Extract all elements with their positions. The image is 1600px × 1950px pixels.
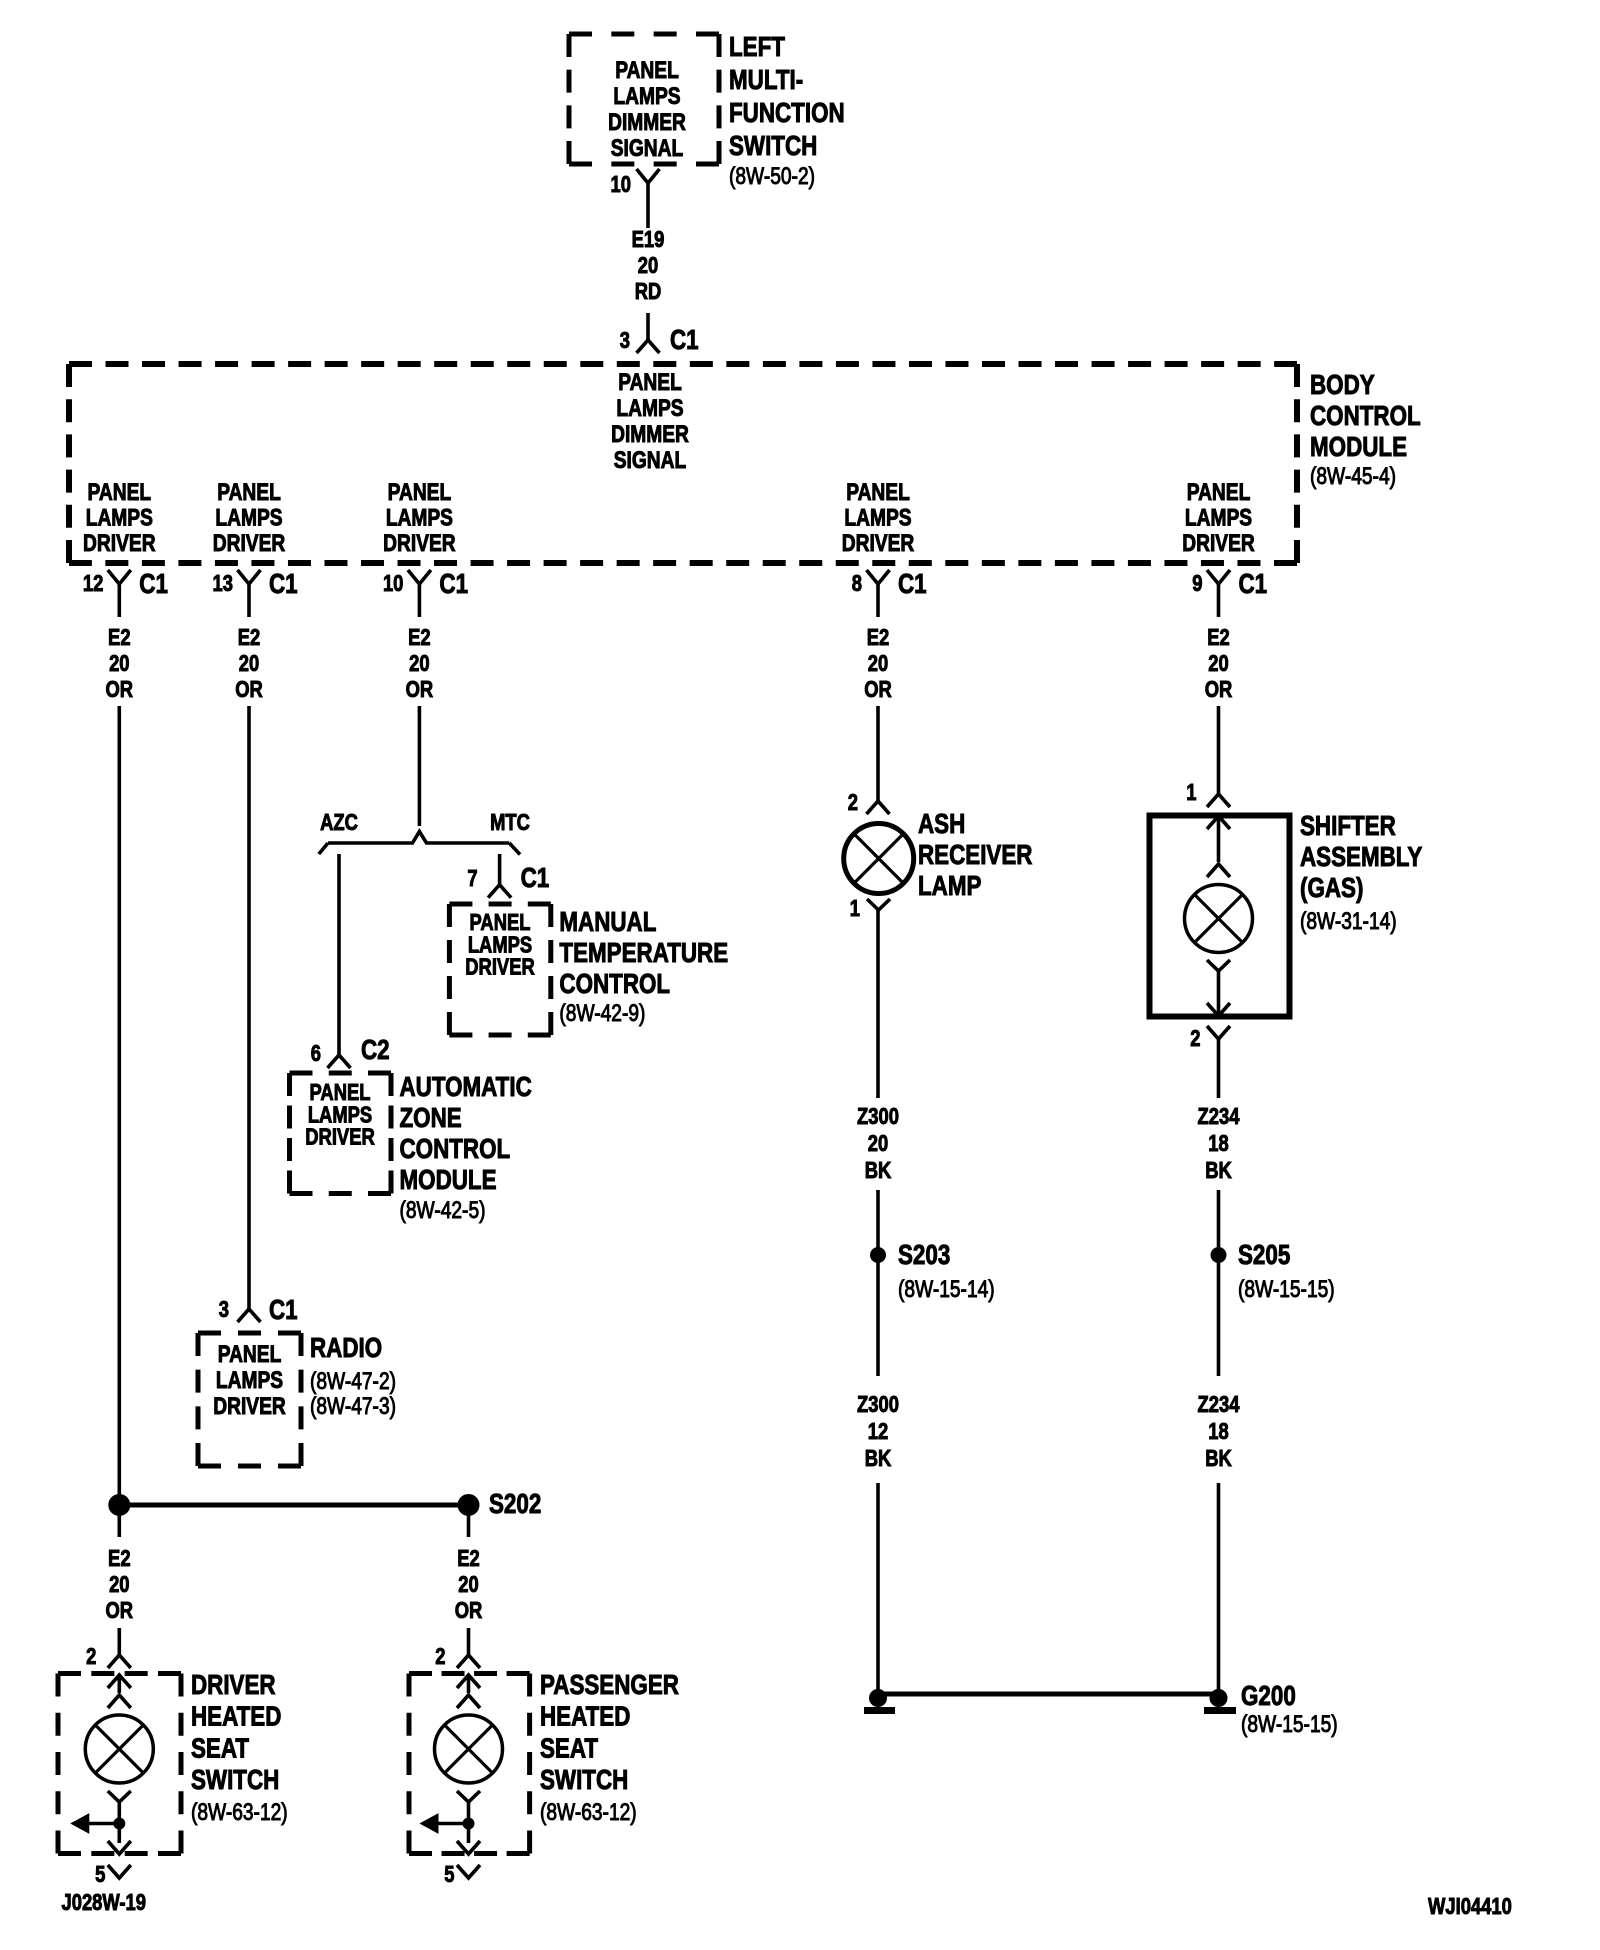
connector pin 1 (shifter assembly) [1207, 794, 1230, 807]
splice S202 bus wire [119, 1503, 468, 1508]
svg-text:SIGNAL: SIGNAL [611, 134, 683, 162]
svg-text:(8W-45-4): (8W-45-4) [1310, 462, 1396, 490]
svg-text:ZONE: ZONE [400, 1103, 462, 1134]
svg-text:AZC: AZC [320, 810, 358, 835]
svg-text:12: 12 [868, 1419, 888, 1444]
svg-text:SWITCH: SWITCH [191, 1765, 279, 1796]
connector C1 pin 13 (BCM panel lamps driver) [238, 570, 261, 584]
svg-text:(8W-15-15): (8W-15-15) [1238, 1275, 1335, 1303]
svg-text:CONTROL: CONTROL [559, 969, 670, 1000]
svg-text:(GAS): (GAS) [1300, 873, 1363, 904]
connector C1 pin 3 (radio) [238, 1309, 261, 1322]
connector pin 2 (passenger heated seat switch) [457, 1655, 480, 1668]
svg-text:DRIVER: DRIVER [842, 529, 915, 557]
connector C1 pin 12 (BCM panel lamps driver) [108, 570, 131, 584]
connector pin 2 (ash receiver lamp) [867, 801, 890, 814]
svg-text:BK: BK [865, 1158, 892, 1183]
svg-text:E2: E2 [108, 1546, 131, 1571]
splice S205 [1211, 1248, 1226, 1263]
svg-text:2: 2 [435, 1644, 445, 1669]
lamp: passenger heated seat switch illumination [435, 1715, 503, 1783]
svg-text:LAMPS: LAMPS [1185, 503, 1252, 531]
svg-text:20: 20 [868, 1131, 888, 1156]
svg-text:20: 20 [1208, 651, 1228, 676]
svg-text:OR: OR [1205, 677, 1233, 702]
left multi-function switch box [569, 32, 719, 37]
svg-text:TEMPERATURE: TEMPERATURE [559, 938, 728, 969]
svg-text:3: 3 [219, 1297, 229, 1322]
svg-text:LAMP: LAMP [918, 871, 982, 902]
svg-text:PANEL: PANEL [217, 478, 281, 506]
svg-text:Z300: Z300 [857, 1392, 899, 1417]
wire E2 (pin 12 to splice S202) [118, 706, 122, 1505]
connector pin 2 (driver heated seat switch) [108, 1655, 131, 1668]
svg-text:AUTOMATIC: AUTOMATIC [400, 1072, 532, 1103]
svg-text:PANEL: PANEL [388, 478, 452, 506]
svg-text:PANEL: PANEL [87, 478, 151, 506]
wire E2 (pin 9 to shifter assembly) [1217, 706, 1221, 794]
svg-text:MANUAL: MANUAL [559, 907, 656, 938]
svg-text:PANEL: PANEL [1187, 478, 1251, 506]
svg-text:20: 20 [868, 651, 888, 676]
ground bus wire (S203 branch to G200) [878, 1692, 1219, 1697]
svg-text:BK: BK [1205, 1446, 1232, 1471]
svg-text:LAMPS: LAMPS [616, 394, 683, 422]
connector C1 pin 3 (BCM) [637, 340, 660, 353]
wire E2 (pin 13 to radio) [247, 706, 251, 1309]
svg-text:(8W-15-14): (8W-15-14) [898, 1275, 995, 1303]
wire to pin 5 [118, 1824, 122, 1844]
wire into connector C1 pin 3 [646, 313, 650, 340]
svg-text:SEAT: SEAT [540, 1733, 599, 1764]
svg-text:BODY: BODY [1310, 370, 1375, 401]
svg-text:MODULE: MODULE [400, 1165, 497, 1196]
svg-text:S202: S202 [489, 1489, 541, 1520]
svg-text:C1: C1 [139, 569, 168, 600]
svg-text:OR: OR [406, 677, 434, 702]
connector C1 pin 7 (manual temperature control) [488, 885, 511, 898]
svg-text:LAMPS: LAMPS [386, 503, 453, 531]
svg-text:5: 5 [95, 1862, 105, 1887]
svg-text:DIMMER: DIMMER [611, 420, 689, 448]
internal connector (lamp bottom) [108, 1791, 131, 1802]
svg-text:E2: E2 [867, 625, 890, 650]
option split brace (AZC / MTC) [328, 832, 509, 844]
connector C1 pin 10 (BCM panel lamps driver) [408, 570, 431, 584]
svg-text:18: 18 [1208, 1131, 1228, 1156]
svg-text:SHIFTER: SHIFTER [1300, 811, 1396, 842]
svg-text:DRIVER: DRIVER [1182, 529, 1255, 557]
svg-text:HEATED: HEATED [540, 1701, 630, 1732]
svg-text:MTC: MTC [490, 810, 530, 835]
connector pin 10 (switch output) [637, 169, 660, 183]
svg-text:DRIVER: DRIVER [213, 1392, 286, 1420]
svg-text:SWITCH: SWITCH [729, 131, 817, 162]
svg-text:DRIVER: DRIVER [305, 1125, 374, 1150]
svg-text:(8W-15-15): (8W-15-15) [1241, 1710, 1338, 1738]
svg-text:LAMPS: LAMPS [86, 503, 153, 531]
svg-text:10: 10 [611, 172, 631, 197]
svg-text:E2: E2 [408, 625, 431, 650]
svg-text:RADIO: RADIO [310, 1333, 382, 1364]
svg-text:13: 13 [213, 571, 233, 596]
svg-text:9: 9 [1192, 571, 1202, 596]
ground symbol bar (left) [864, 1707, 895, 1714]
svg-text:DRIVER: DRIVER [465, 955, 534, 980]
svg-text:Z234: Z234 [1198, 1392, 1240, 1417]
svg-text:LAMPS: LAMPS [215, 503, 282, 531]
switch wiper arrow [89, 1822, 120, 1826]
wire Z234 segment (shifter to S205) [1217, 1039, 1221, 1098]
wire into splice S205 [1217, 1190, 1221, 1250]
svg-text:SWITCH: SWITCH [540, 1765, 628, 1796]
svg-text:C1: C1 [521, 863, 550, 894]
svg-text:(8W-31-14): (8W-31-14) [1300, 907, 1397, 935]
wire E2 into driver heated seat switch [118, 1628, 122, 1655]
svg-text:20: 20 [109, 1572, 129, 1597]
wire E2 stub below pin 9 [1217, 584, 1221, 617]
lamp: driver heated seat switch illumination [85, 1715, 153, 1783]
wire E2 stub below S202 (passenger) [467, 1505, 471, 1537]
svg-text:18: 18 [1208, 1419, 1228, 1444]
svg-text:2: 2 [1190, 1026, 1200, 1051]
svg-text:ASH: ASH [918, 809, 965, 840]
wire E2 into passenger heated seat switch [467, 1628, 471, 1655]
svg-text:E2: E2 [457, 1546, 480, 1571]
svg-text:BK: BK [1205, 1158, 1232, 1183]
radio box [198, 1331, 301, 1336]
svg-text:SIGNAL: SIGNAL [614, 446, 686, 474]
internal connector (lamp bottom) [457, 1791, 480, 1802]
svg-text:LAMPS: LAMPS [844, 503, 911, 531]
svg-text:PANEL: PANEL [618, 368, 682, 396]
svg-text:FUNCTION: FUNCTION [729, 98, 845, 129]
ground junction dot (left) [870, 1690, 887, 1707]
svg-text:Z234: Z234 [1198, 1104, 1240, 1129]
svg-text:6: 6 [311, 1041, 321, 1066]
svg-text:DRIVER: DRIVER [383, 529, 456, 557]
svg-text:RECEIVER: RECEIVER [918, 840, 1032, 871]
svg-text:DIMMER: DIMMER [608, 108, 686, 136]
wire (split to AZC module) [337, 854, 341, 1055]
svg-text:PANEL: PANEL [615, 56, 679, 84]
svg-text:E2: E2 [108, 625, 131, 650]
svg-text:CONTROL: CONTROL [1310, 401, 1421, 432]
connector pin 1 (ash receiver lamp) [867, 899, 890, 910]
svg-text:G200: G200 [1241, 1681, 1296, 1712]
shifter internal connector arrow (top) [1207, 816, 1230, 829]
svg-text:WJI04410: WJI04410 [1428, 1894, 1512, 1919]
svg-text:HEATED: HEATED [191, 1701, 281, 1732]
wire E2 stub below pin 12 [118, 584, 122, 617]
wire E2 stub below pin 13 [247, 584, 251, 617]
wire Z234 segment (S205 down) [1217, 1260, 1221, 1376]
svg-text:MULTI-: MULTI- [729, 65, 803, 96]
svg-text:ASSEMBLY: ASSEMBLY [1300, 842, 1422, 873]
svg-text:E2: E2 [238, 625, 261, 650]
svg-text:OR: OR [455, 1598, 483, 1623]
svg-text:(8W-63-12): (8W-63-12) [191, 1798, 288, 1826]
svg-text:MODULE: MODULE [1310, 432, 1407, 463]
svg-text:BK: BK [865, 1446, 892, 1471]
svg-text:OR: OR [106, 677, 134, 702]
svg-text:C1: C1 [670, 325, 699, 356]
svg-text:1: 1 [1186, 780, 1196, 805]
switch node dot [114, 1818, 125, 1829]
internal connector arrow (top) [457, 1675, 480, 1688]
wire to pin 5 [467, 1824, 471, 1844]
svg-text:20: 20 [458, 1572, 478, 1597]
passenger heated seat switch box [409, 1671, 530, 1676]
svg-text:PANEL: PANEL [218, 1340, 282, 1368]
svg-text:LAMPS: LAMPS [613, 82, 680, 110]
svg-text:S203: S203 [898, 1240, 950, 1271]
svg-text:OR: OR [106, 1598, 134, 1623]
svg-text:12: 12 [83, 571, 103, 596]
svg-text:J028W-19: J028W-19 [62, 1890, 146, 1915]
svg-text:C1: C1 [1239, 569, 1268, 600]
wire (split to MTC) [498, 854, 502, 885]
connector pin 5 (driver heated seat switch) [108, 1865, 131, 1878]
shifter internal connector (bottom) [1207, 960, 1230, 971]
svg-text:20: 20 [409, 651, 429, 676]
svg-text:20: 20 [239, 651, 259, 676]
wire E2 stub below pin 10 [418, 584, 422, 617]
svg-text:SEAT: SEAT [191, 1733, 250, 1764]
svg-text:7: 7 [467, 866, 477, 891]
wire E19 segment (switch to BCM) [646, 183, 650, 228]
svg-text:E19: E19 [632, 227, 665, 252]
svg-text:1: 1 [850, 896, 860, 921]
svg-text:RD: RD [635, 279, 662, 304]
svg-text:(8W-42-5): (8W-42-5) [400, 1196, 486, 1224]
shifter assembly (gas) box [1150, 816, 1290, 1017]
svg-text:LAMPS: LAMPS [216, 1366, 283, 1394]
driver heated seat switch box [58, 1671, 181, 1676]
connector C2 pin 6 (AZC module) [328, 1055, 351, 1068]
svg-text:(8W-63-12): (8W-63-12) [540, 1798, 637, 1826]
lamp: shifter assembly illumination [1185, 885, 1253, 953]
wire Z300 segment (S203 down) [876, 1260, 880, 1376]
svg-text:C1: C1 [269, 1295, 298, 1326]
svg-text:Z300: Z300 [857, 1104, 899, 1129]
wire E2 stub below pin 8 [876, 584, 880, 617]
ground G200 junction dot [1210, 1690, 1227, 1707]
svg-text:(8W-50-2): (8W-50-2) [729, 162, 815, 190]
svg-text:DRIVER: DRIVER [83, 529, 156, 557]
splice S202 dot (right) [458, 1495, 479, 1516]
manual temperature control box [449, 902, 550, 907]
splice S203 [871, 1248, 886, 1263]
ground symbol bar G200 [1204, 1707, 1236, 1714]
svg-text:(8W-47-3): (8W-47-3) [310, 1392, 396, 1420]
connector pin 2 (shifter assembly) [1207, 1026, 1230, 1039]
svg-text:C1: C1 [439, 569, 468, 600]
svg-text:PANEL: PANEL [846, 478, 910, 506]
switch wiper arrow [438, 1822, 469, 1826]
body control module box [69, 361, 1297, 367]
svg-text:8: 8 [852, 571, 862, 596]
svg-text:(8W-42-9): (8W-42-9) [559, 999, 645, 1027]
svg-text:DRIVER: DRIVER [213, 529, 286, 557]
svg-text:LEFT: LEFT [729, 32, 785, 63]
svg-text:PASSENGER: PASSENGER [540, 1670, 679, 1701]
svg-text:5: 5 [444, 1862, 454, 1887]
svg-text:10: 10 [383, 571, 403, 596]
wire E2 (pin 8 to ash receiver lamp) [876, 706, 880, 801]
svg-text:3: 3 [620, 328, 630, 353]
svg-text:2: 2 [86, 1644, 96, 1669]
internal connector arrow (top) [108, 1675, 131, 1688]
svg-text:C1: C1 [269, 569, 298, 600]
wire E2 stub below S202 (driver) [118, 1505, 122, 1537]
svg-text:DRIVER: DRIVER [191, 1670, 276, 1701]
automatic zone control module box [290, 1071, 392, 1076]
svg-text:20: 20 [638, 253, 658, 278]
svg-text:C2: C2 [361, 1035, 390, 1066]
connector pin 5 (passenger heated seat switch) [457, 1865, 480, 1878]
wire Z300 segment (lamp to S203) [876, 909, 880, 1098]
wire Z300 to ground junction [876, 1483, 880, 1694]
svg-text:(8W-47-2): (8W-47-2) [310, 1367, 396, 1395]
wire E2 (pin 10 to AZC/MTC option split) [418, 706, 422, 826]
svg-text:OR: OR [235, 677, 263, 702]
svg-text:20: 20 [109, 651, 129, 676]
svg-text:E2: E2 [1207, 625, 1230, 650]
wire into splice S203 [876, 1190, 880, 1250]
lamp: ash receiver lamp [844, 824, 914, 894]
svg-text:S205: S205 [1238, 1240, 1290, 1271]
connector C1 pin 9 (BCM panel lamps driver) [1207, 570, 1230, 584]
svg-text:2: 2 [848, 790, 858, 815]
svg-text:CONTROL: CONTROL [400, 1134, 511, 1165]
svg-text:C1: C1 [898, 569, 927, 600]
svg-text:OR: OR [864, 677, 892, 702]
splice S202 dot (left) [109, 1495, 130, 1516]
wire Z234 to ground G200 [1217, 1483, 1221, 1692]
connector C1 pin 8 (BCM panel lamps driver) [867, 570, 890, 584]
switch node dot [463, 1818, 474, 1829]
